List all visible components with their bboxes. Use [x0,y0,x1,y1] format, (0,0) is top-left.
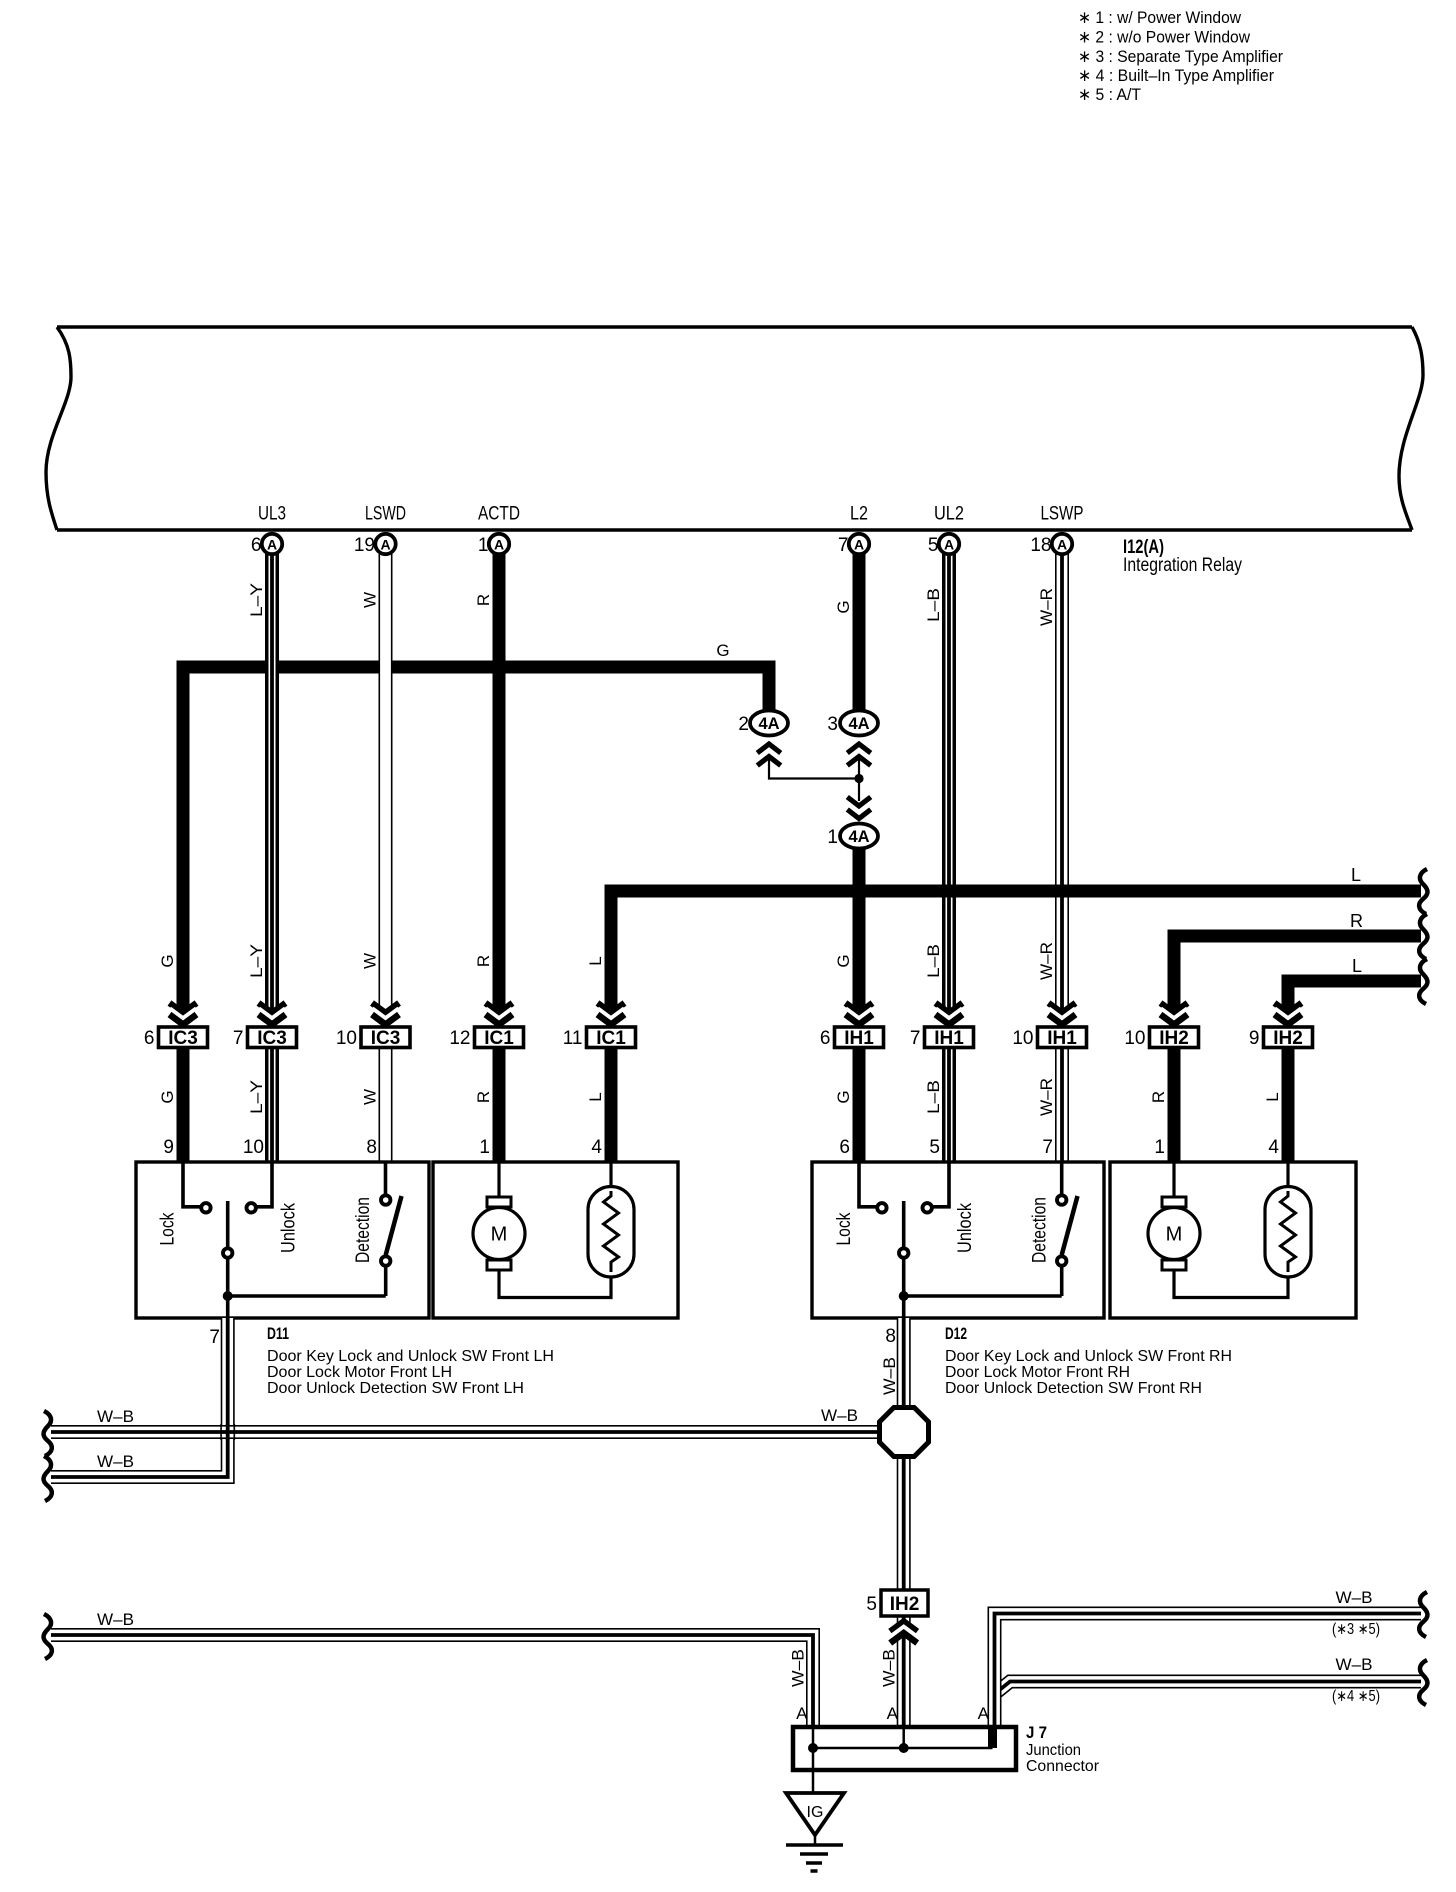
svg-text:IC3: IC3 [257,1028,287,1049]
IG ground triangle [786,1793,844,1835]
svg-text:L–B: L–B [924,944,943,978]
svg-text:IH2: IH2 [1273,1028,1303,1049]
wire color label L above connector row [586,956,605,965]
wire color label G below connector row [834,1090,853,1103]
wire W-R IH1-10 to D12 pin 7 [1055,1049,1069,1162]
svg-text:R: R [1350,911,1363,931]
svg-text:W–B: W–B [1336,1655,1373,1674]
svg-text:Door Lock Motor Front LH: Door Lock Motor Front LH [267,1364,452,1381]
junction dot on thin net [854,774,863,783]
D12 switch common wire [904,1296,1062,1318]
D12 pole junction dot [899,1291,909,1301]
D11 motor box outline [433,1162,678,1318]
connector IC3 pin 10 [336,1027,410,1049]
svg-text:4: 4 [1268,1137,1279,1158]
torn edge brace wire R [1419,914,1427,959]
connector IH2 pin 10 [1124,1027,1198,1049]
terminal LSWD pin 19 on integration relay [354,504,406,557]
wire W-B octagon down to IH2-5 [897,1456,911,1590]
octagon junction connector [880,1408,929,1457]
torn edge brace W-B bottom left [44,1614,52,1659]
legend note *3 Separate Type Amplifier [1078,47,1283,66]
wire G loop from IC3-6 up and over to fuse 2(4A) [183,667,769,1023]
wire G IC3-6 to D11 pin 9 [177,1049,190,1162]
wire G from L2 terminal down to fuse 3(4A) [853,554,866,712]
svg-text:L–Y: L–Y [247,583,266,617]
svg-text:W: W [361,1089,380,1105]
wire L-B IH1-7 to D12 pin 5 [946,1049,951,1162]
svg-text:5: 5 [929,1137,940,1158]
connector IH1 pin 7 [910,1027,974,1049]
svg-text:G: G [834,954,853,967]
svg-text:Unlock: Unlock [955,1203,976,1253]
svg-text:Detection: Detection [353,1197,374,1263]
wire W-R from LSWP down to IH1-10 [1055,554,1069,1023]
wire G from fuse 1(4A) down to IH1-6 [853,848,866,1023]
wire color label G above connector row [834,954,853,967]
svg-text:1: 1 [478,535,489,556]
D12 detection switch [1057,1162,1078,1296]
D11 lamp resistor [588,1162,634,1277]
svg-text:6: 6 [251,535,262,556]
connector IC3 pin 7 [233,1027,297,1049]
svg-text:A: A [854,537,864,553]
arrow into connector IC1-12 [486,1003,513,1025]
svg-text:11: 11 [563,1028,583,1049]
svg-text:A: A [796,1704,808,1723]
svg-text:D11: D11 [267,1324,289,1343]
connector IH1 pin 10 [1012,1027,1086,1049]
pin 7 D12 [1042,1137,1053,1158]
wire L IH2-9 to D12 pin 4 [1282,1049,1295,1162]
wire color label L&#8211;B above connector row [924,944,943,978]
arrow into connector IH1-6 [846,1003,873,1025]
wire L-B from UL2 down to IH1-7 [946,554,951,1023]
label G on horizontal wire [716,641,729,660]
wire color label W&#8211;R above connector row [1037,942,1056,980]
wire W-B long bottom from torn edge to J7 [51,1635,813,1727]
svg-text:1: 1 [479,1137,490,1158]
svg-text:R: R [474,594,493,606]
svg-text:Door Unlock Detection SW Front: Door Unlock Detection SW Front LH [267,1380,524,1397]
fuse 1(4A) [827,824,878,849]
arrows up into IH2-5 [890,1622,917,1644]
svg-text:IH1: IH1 [934,1028,964,1049]
svg-text:W–B: W–B [880,1357,899,1395]
svg-text:Door Unlock Detection SW Front: Door Unlock Detection SW Front RH [945,1380,1202,1397]
pin A left on J7 [796,1704,808,1723]
torn edge brace W-B 1 [44,1411,52,1456]
legend note *4 Built-In Type Amplifier [1078,66,1274,85]
svg-text:Junction: Junction [1026,1742,1081,1759]
svg-text:Door Key Lock and Unlock SW Fr: Door Key Lock and Unlock SW Front RH [945,1348,1232,1365]
wire color label L&#8211;Y below connector row [247,1080,266,1114]
svg-text:A: A [944,537,954,553]
svg-text:LSWD: LSWD [365,504,406,525]
terminal L2 pin 7 on integration relay [838,504,869,557]
J7 internal bus [813,1729,993,1748]
pin 6 D12 [839,1137,850,1158]
D12 unlock contact branch [923,1162,950,1213]
pin 5 D12 [929,1137,940,1158]
torn edge brace W-B *3*5 [1419,1592,1427,1637]
wire color label L&#8211;B upper run [924,588,943,622]
label W-B wire1 [97,1407,134,1426]
svg-text:G: G [158,1090,177,1103]
svg-text:L: L [1351,865,1361,885]
svg-text:IC3: IC3 [168,1028,198,1049]
svg-text:LSWP: LSWP [1041,504,1084,525]
D11 switch common wire [228,1296,386,1318]
D12 label Detection [1030,1197,1051,1263]
svg-text:W–B: W–B [880,1649,899,1687]
wire color label W upper run [361,592,380,608]
svg-text:9: 9 [1249,1028,1260,1049]
terminal LSWP pin 18 on integration relay [1030,504,1083,557]
svg-text:W–R: W–R [1037,942,1056,980]
pin 8 D11 [366,1137,377,1158]
pin 8 D12 [885,1326,896,1347]
svg-text:7: 7 [910,1028,921,1049]
svg-text:UL3: UL3 [258,504,286,525]
D12 key switch pole [899,1201,908,1296]
D11 label Lock [158,1212,179,1245]
wire L IC1-11 to D11 pin 4 [605,1049,618,1162]
svg-text:W–B: W–B [97,1407,134,1426]
svg-text:8: 8 [366,1137,377,1158]
svg-text:Connector: Connector [1026,1758,1100,1775]
terminal UL2 pin 5 on integration relay [928,504,964,557]
wire R IH2-10 to D12 pin 1 [1168,1049,1181,1162]
svg-text:∗ 4 : Built–In Type Amplifier: ∗ 4 : Built–In Type Amplifier [1078,66,1274,85]
svg-text:(∗3 ∗5): (∗3 ∗5) [1332,1621,1380,1638]
svg-text:Door Key Lock and Unlock SW Fr: Door Key Lock and Unlock SW Front LH [267,1348,554,1365]
svg-text:L: L [1263,1092,1282,1101]
D11 unlock contact branch [247,1162,273,1213]
svg-text:10: 10 [336,1028,357,1049]
wire color label L below connector row [1263,1092,1282,1101]
svg-text:∗ 5 : A/T: ∗ 5 : A/T [1078,85,1141,104]
wire color label L below connector row [586,1092,605,1101]
svg-text:4A: 4A [758,715,779,733]
torn edge brace W-B 2 [44,1456,52,1501]
connector IH2 pin 9 [1249,1027,1313,1049]
svg-text:A: A [887,1704,899,1723]
label W-B *3*5 [1336,1588,1373,1607]
D11 pole junction dot [223,1291,233,1301]
D12 motor box outline [1110,1162,1356,1318]
D12 door lock motor [1148,1162,1288,1298]
svg-text:R: R [474,955,493,967]
svg-text:A: A [267,537,277,553]
svg-text:7: 7 [838,535,849,556]
svg-text:W–B: W–B [789,1649,808,1687]
svg-text:W–R: W–R [1037,1078,1056,1116]
svg-text:W: W [361,592,380,608]
terminal ACTD pin 1 on integration relay [478,504,520,557]
svg-text:∗ 3 : Separate Type Amplifier: ∗ 3 : Separate Type Amplifier [1078,47,1283,66]
svg-text:A: A [380,537,390,553]
D12 designation text block [945,1324,1232,1397]
arrows down into fuse 1(4A) [847,797,870,819]
svg-text:1: 1 [1154,1137,1165,1158]
svg-text:Door Lock Motor Front RH: Door Lock Motor Front RH [945,1364,1130,1381]
svg-text:A: A [1057,537,1067,553]
svg-text:10: 10 [1012,1028,1033,1049]
svg-text:L: L [586,1092,605,1101]
wire color label W below connector row [361,1089,380,1105]
wire color label W&#8211;R upper run [1037,588,1056,626]
svg-text:G: G [834,600,853,613]
wire color label W&#8211;R below connector row [1037,1078,1056,1116]
label W-B left of octagon [821,1406,858,1425]
svg-text:M: M [491,1224,508,1246]
svg-text:(∗4 ∗5): (∗4 ∗5) [1332,1688,1380,1705]
svg-text:L–Y: L–Y [247,1080,266,1114]
wire R IC1-12 to D11 pin 1 [493,1049,506,1162]
svg-text:L–B: L–B [924,1080,943,1114]
ground symbol [786,1835,843,1871]
wire color label G below connector row [158,1090,177,1103]
D11 pin 7 [209,1327,220,1348]
pin A center on J7 [887,1704,899,1723]
thin net joining fuses 2(4A) 3(4A) 1(4A) [769,757,859,801]
label L right end [1351,865,1361,885]
arrows up into fuse 2(4A) [757,744,780,766]
D11 lock contact branch [183,1162,211,1213]
svg-text:Detection: Detection [1030,1197,1051,1263]
svg-text:7: 7 [233,1028,244,1049]
svg-text:12: 12 [449,1028,470,1049]
svg-text:5: 5 [928,535,939,556]
legend note *1 w/ Power Window [1078,8,1242,27]
wire color label G above connector row [158,954,177,967]
svg-text:7: 7 [209,1327,220,1348]
svg-text:10: 10 [1124,1028,1145,1049]
svg-text:Lock: Lock [834,1212,855,1245]
wire L-Y from UL3 down to IC3-7 [269,554,274,1023]
svg-text:R: R [474,1091,493,1103]
svg-text:∗ 1 : w/ Power Window: ∗ 1 : w/ Power Window [1078,8,1242,27]
svg-text:5: 5 [866,1594,877,1615]
D11 detection switch [381,1162,402,1296]
arrow into connector IH2-9 [1275,1003,1302,1025]
svg-text:W: W [361,953,380,969]
wire color label R below connector row [474,1091,493,1103]
label I12(A) [1123,537,1164,558]
pin 4 D11 [591,1137,602,1158]
J7 junction dot center [899,1743,909,1753]
svg-text:3: 3 [827,714,838,735]
D11 designation text block [267,1324,554,1397]
label W-B *4*5 [1336,1655,1373,1674]
svg-text:IH2: IH2 [890,1594,920,1615]
torn edge brace wire L [1419,869,1427,914]
svg-text:19: 19 [354,535,375,556]
D12 lock contact branch [859,1162,887,1213]
arrows up into fuse 3(4A) [847,744,870,766]
legend note *2 w/o Power Window [1078,28,1251,47]
svg-text:L: L [1352,956,1362,976]
pin A right on J7 [978,1704,990,1723]
svg-text:IH2: IH2 [1159,1028,1189,1049]
connector IH1 pin 6 [820,1027,884,1049]
svg-text:Unlock: Unlock [279,1203,300,1253]
wire color label R below connector row [1149,1091,1168,1103]
pin 9 D11 [163,1137,174,1158]
svg-text:A: A [978,1704,990,1723]
label W-B rotated below D12 [880,1357,899,1395]
label (*4 *5) [1332,1688,1380,1705]
wire L lower horizontal to right edge and down to IH2-9 [1288,981,1421,1023]
svg-text:W–B: W–B [97,1452,134,1471]
label W-B rotated above J7 center [880,1649,899,1687]
label W-B rotated above J7 left [789,1649,808,1687]
svg-text:UL2: UL2 [934,504,964,525]
svg-text:IC3: IC3 [371,1028,401,1049]
pin 4 D12 [1268,1137,1279,1158]
arrow into connector IC3-7 [259,1003,286,1025]
wire color label L&#8211;Y upper run [247,583,266,617]
pin 1 D12 [1154,1137,1165,1158]
wire W-B right branch *4*5 with jog [995,1682,1422,1728]
svg-text:4A: 4A [848,828,869,846]
J7 junction dot left [808,1743,818,1753]
connector IC3 pin 6 [144,1027,208,1049]
wire color label R upper run [474,594,493,606]
svg-text:M: M [1166,1224,1183,1246]
wire L main horizontal to right edge and down to IC1-11 [611,891,1421,1023]
label L lower right end [1352,956,1362,976]
torn edge brace W-B *4*5 [1419,1660,1427,1705]
label J 7 Junction Connector [1026,1723,1100,1775]
svg-text:6: 6 [144,1028,155,1049]
integration relay I12(A) bus box outline [46,327,1423,530]
svg-text:6: 6 [839,1137,850,1158]
svg-text:8: 8 [885,1326,896,1347]
svg-text:7: 7 [1042,1137,1053,1158]
wire W-B right branch *3*5 [995,1614,1422,1728]
D11 door lock motor [473,1162,611,1298]
label (*3 *5) [1332,1621,1380,1638]
fuse 2(4A) [738,711,788,736]
svg-text:4A: 4A [848,715,869,733]
svg-text:18: 18 [1030,535,1051,556]
svg-text:∗ 2 : w/o Power Window: ∗ 2 : w/o Power Window [1078,28,1251,47]
label W-B bottom left [97,1610,134,1629]
terminal UL3 pin 6 on integration relay [251,504,286,557]
wire color label W above connector row [361,953,380,969]
wire color label L&#8211;Y above connector row [247,944,266,978]
svg-text:L–B: L–B [924,588,943,622]
pin 10 D11 [243,1137,264,1158]
svg-text:9: 9 [163,1137,174,1158]
svg-text:A: A [494,537,504,553]
D11 label Detection [353,1197,374,1263]
wire color label R above connector row [474,955,493,967]
fuse 3(4A) [827,711,878,736]
D12 lamp resistor [1265,1162,1311,1277]
label Integration Relay [1123,555,1242,576]
connector IH2 pin 5 box [866,1590,928,1616]
wire W from LSWD down to IC3-10 [379,554,393,1023]
svg-text:4: 4 [591,1137,602,1158]
svg-text:2: 2 [738,714,749,735]
torn edge brace wire L lower [1419,959,1427,1004]
svg-text:L–Y: L–Y [247,944,266,978]
pin 1 D11 [479,1137,490,1158]
connector IC1 pin 12 [449,1027,523,1049]
arrow into connector IH1-10 [1049,1003,1076,1025]
label W-B wire2 [97,1452,134,1471]
svg-text:W–R: W–R [1037,588,1056,626]
D12 label Lock [834,1212,855,1245]
svg-text:Integration Relay: Integration Relay [1123,555,1242,576]
wire color label G upper run [834,600,853,613]
wire W-B horizontal 1 from torn edge to octagon junction [51,1425,881,1439]
svg-text:W–B: W–B [821,1406,858,1425]
svg-text:6: 6 [820,1028,831,1049]
wire R from ACTD down to IC1-12 [493,554,506,1023]
legend note *5 A/T [1078,85,1141,104]
svg-text:1: 1 [827,827,838,848]
svg-text:IH1: IH1 [844,1028,874,1049]
svg-text:G: G [834,1090,853,1103]
svg-text:R: R [1149,1091,1168,1103]
svg-text:W–B: W–B [97,1610,134,1629]
D12 switch box outline [812,1162,1104,1318]
arrow into connector IC3-10 [372,1003,399,1025]
svg-text:IC1: IC1 [484,1028,514,1049]
wire R horizontal to right edge and down to IH2-10 [1174,936,1421,1023]
svg-text:J 7: J 7 [1026,1723,1047,1742]
label R right end [1350,911,1363,931]
svg-text:IC1: IC1 [596,1028,626,1049]
svg-text:G: G [158,954,177,967]
svg-text:IH1: IH1 [1047,1028,1077,1049]
svg-text:D12: D12 [945,1324,967,1343]
svg-text:L: L [586,956,605,965]
D11 key switch pole [223,1201,232,1296]
wire from J7 to IG ground [812,1748,815,1793]
wire W-B IH2-5 down to J7 [897,1616,911,1727]
D11 switch box outline [136,1162,429,1318]
J7 junction connector box [793,1727,1016,1770]
svg-text:G: G [716,641,729,660]
crossing patch pin7 wire over W-B wire1 [221,1424,234,1440]
svg-text:10: 10 [243,1137,264,1158]
svg-text:ACTD: ACTD [478,504,520,525]
wire color label L&#8211;B below connector row [924,1080,943,1114]
arrow into connector IH2-10 [1161,1003,1188,1025]
wire W-B from D12 pin 8 down to octagon [897,1318,911,1408]
wire W-B from D11 pin 7 down and left to torn edge [51,1318,228,1477]
arrow into connector IH1-7 [936,1003,963,1025]
arrow into connector IC3-6 [170,1003,197,1025]
svg-text:Lock: Lock [158,1212,179,1245]
connector IC1 pin 11 [563,1027,636,1049]
wire L-Y IC3-7 to D11 pin 10 [269,1049,274,1162]
svg-text:IG: IG [807,1804,824,1821]
svg-text:W–B: W–B [1336,1588,1373,1607]
wire W IC3-10 to D11 pin 8 [379,1049,393,1162]
D12 label Unlock [955,1203,976,1253]
svg-text:L2: L2 [850,504,868,525]
wire G IH1-6 to D12 pin 6 [853,1049,866,1162]
D11 label Unlock [279,1203,300,1253]
arrow into connector IC1-11 [598,1003,625,1025]
